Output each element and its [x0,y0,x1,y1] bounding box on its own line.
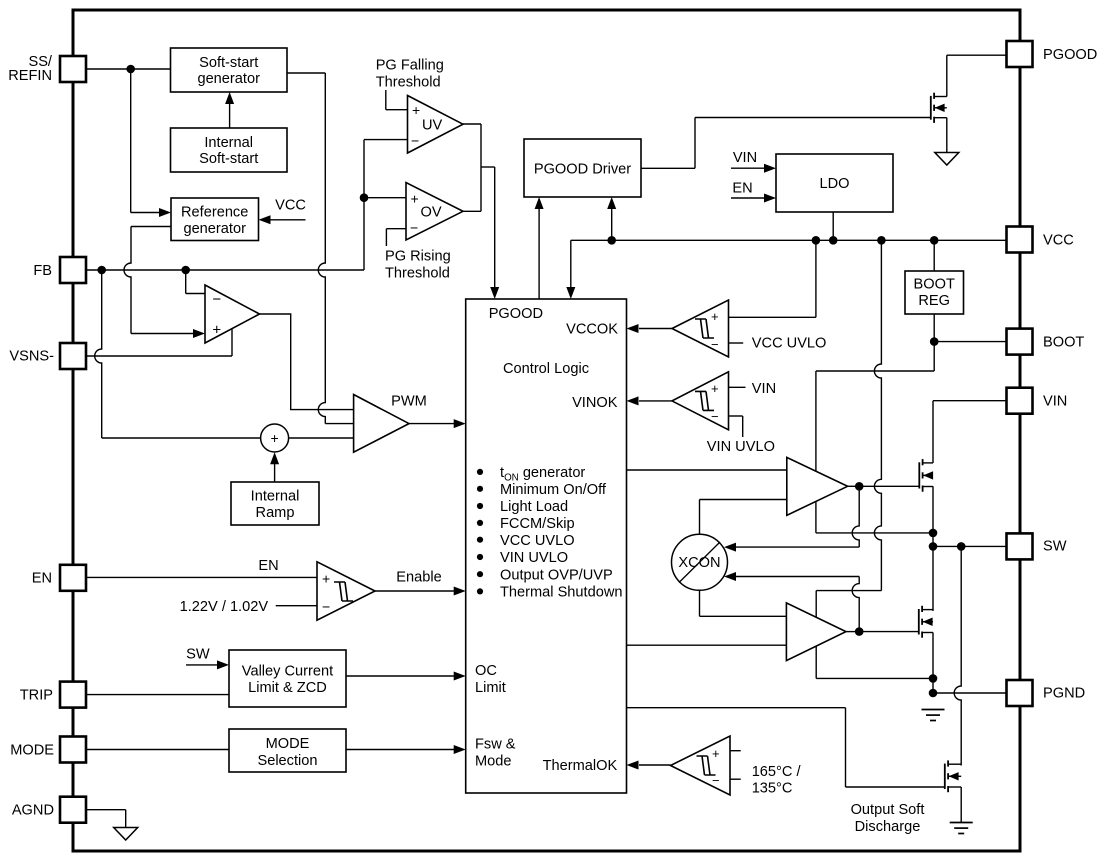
svg-text:VCC: VCC [275,198,306,214]
wire Internal Soft-start to Soft-start generator [229,103,231,128]
wire high-side driver output to gate [848,485,860,487]
svg-text:SW: SW [1043,539,1067,555]
ground AGND [114,828,138,841]
wire SW branch to Output Soft Discharge drain [954,546,961,765]
block Control Logic [466,299,627,793]
svg-text:PGOOD Driver: PGOOD Driver [534,162,631,178]
node FB junction 1 [97,266,106,275]
node BOOT junction [930,337,939,346]
comparator thermal shutdown [671,736,731,795]
wire switch node column [932,486,934,611]
svg-text:MODE: MODE [266,736,310,752]
wire TRIP pin to Valley Current Limit block [87,694,230,696]
node VCC rail to BOOT REG [930,236,939,245]
svg-text:PWM: PWM [391,394,427,410]
wire VIN UVLO - input stub [729,415,743,417]
wire thermal comparator - input stub [730,778,741,780]
svg-text:165°C /: 165°C / [752,764,802,780]
node SW junction [929,542,938,551]
svg-text:generator: generator [197,71,260,87]
svg-text:+: + [412,102,420,118]
wire Control Logic to low-side driver input [627,644,787,646]
svg-text:Ramp: Ramp [256,505,295,521]
driver high-side gate driver [787,457,848,515]
comparator VIN UVLO [672,372,729,430]
comparator EN enable [317,562,375,620]
op-amp error amplifier [205,285,260,343]
wire low-side driver output to gate [846,631,859,633]
block Valley Current Limit and ZCD [229,650,346,707]
node FB junction 2 [181,266,190,275]
wire VIN UVLO output to VINOK [639,400,672,402]
svg-text:−: − [711,337,719,352]
block MODE Selection [229,729,346,772]
svg-text:−: − [411,132,419,148]
wire SS/REFIN down to Reference generator [130,69,132,213]
svg-text:Discharge: Discharge [855,819,921,835]
svg-text:PG Falling: PG Falling [376,58,444,74]
pin SS/REFIN [60,56,86,82]
svg-text:−: − [212,291,221,308]
comparator PWM [354,395,409,453]
summing node [261,424,289,452]
svg-text:Output Soft: Output Soft [851,802,925,818]
svg-text:VIN UVLO: VIN UVLO [707,439,775,455]
wire XCON to high-side driver [699,500,701,535]
wire high-side driver negative rail to SW [815,501,817,533]
wire VCC to VCC UVLO + input [815,240,817,317]
svg-text:BOOT: BOOT [1043,335,1084,351]
node low-side driver output [855,627,864,636]
wire MODE pin to MODE Selection block [87,749,230,751]
svg-text:Internal: Internal [204,135,253,151]
wire UV/OV outputs to Control Logic PGOOD input [463,123,481,125]
wire Reference generator to error amp + input [131,226,171,228]
transistor PGOOD pull-down FET [930,96,932,120]
wire BOOT pin [934,341,1006,343]
wire VCC UVLO - input stub [729,342,744,344]
svg-text:−: − [322,599,330,615]
transistor high-side FET [918,462,920,488]
wire BOOT REG to VCC rail [933,240,935,271]
wire thermal comparator + input stub [730,750,741,752]
svg-text:EN: EN [732,181,752,197]
svg-text:VCC: VCC [1043,233,1074,249]
pin TRIP [60,682,86,708]
wire SW pin [933,545,1007,547]
wire PWM output to Control Logic [409,423,455,425]
node low-side source junction [929,674,938,683]
svg-text:Selection: Selection [257,753,317,769]
wire Control Logic to PGOOD Driver [538,209,540,299]
svg-text:Enable: Enable [396,570,441,586]
svg-text:generator: generator [183,221,246,237]
wire EN into LDO [731,197,765,199]
pin VSNS- [60,343,86,369]
wire Valley Current Limit output to OC Limit [346,675,455,677]
svg-text:TRIP: TRIP [20,688,53,704]
svg-text:REG: REG [918,293,950,309]
wire PG Falling Threshold to UV + input [385,90,387,110]
svg-text:REFIN: REFIN [8,68,52,84]
svg-text:Limit & ZCD: Limit & ZCD [248,680,327,696]
pin VCC [1007,227,1033,253]
svg-text:SW: SW [186,647,210,663]
block BOOT REG [905,271,964,314]
svg-text:MODE: MODE [10,743,54,759]
svg-text:PGOOD: PGOOD [489,306,543,322]
svg-text:BOOT: BOOT [914,277,955,293]
svg-text:XCON: XCON [678,555,720,571]
pin AGND [60,797,86,823]
svg-text:+: + [711,381,719,396]
wire VCC UVLO output to VCCOK [639,328,672,330]
wire MODE Selection output to Fsw & Mode [346,749,455,751]
wire VCC down-feed to low-side driver supply [874,240,881,590]
svg-text:Mode: Mode [475,754,512,770]
svg-text:+: + [271,430,279,446]
svg-text:1.22V / 1.02V: 1.22V / 1.02V [180,599,269,615]
wire FB to UV - input [364,139,408,141]
wire FB net [87,269,365,271]
svg-text:ThermalOK: ThermalOK [543,758,618,774]
node PGND junction [929,689,938,698]
wire FB to error amp - input [185,270,187,294]
driver low-side gate driver [786,603,846,661]
ground PGOOD pull-down [935,153,959,166]
wire low-side driver negative rail to PGND [816,677,933,679]
ground power ground [922,709,945,711]
transistor Output Soft Discharge FET [944,764,946,789]
svg-text:135°C: 135°C [752,780,793,796]
wire Output Soft Discharge source to ground [960,787,962,822]
svg-text:PGND: PGND [1043,686,1085,702]
comparator UV [408,96,464,154]
pin MODE [60,737,86,763]
wire Soft-start generator output to PWM comparator [287,72,325,74]
svg-text:UV: UV [422,118,443,134]
wire Control Logic to Output Soft Discharge gate [627,707,846,709]
wire FB up to UV/OV comparators [363,140,365,270]
wire PG Rising Threshold to OV - input [385,229,387,246]
node VCC rail down-feed [877,236,886,245]
svg-text:VIN: VIN [733,150,757,166]
node SS/REFIN junction [126,65,135,74]
node high-side driver output [855,482,864,491]
svg-text:EN: EN [32,571,52,587]
pin SW [1007,533,1033,559]
wire FB to OV + input [364,197,406,199]
wire SS/REFIN to Soft-start generator [87,68,171,70]
svg-text:VCC UVLO: VCC UVLO [752,336,827,352]
pin PGOOD [1007,41,1033,67]
transistor low-side FET [918,609,920,635]
svg-text:VCCOK: VCCOK [566,322,618,338]
svg-text:+: + [212,322,221,339]
svg-text:Control Logic: Control Logic [503,361,589,377]
wire summing node to PWM comparator [289,437,354,439]
wire 1.22V/1.02V reference to EN comparator - input [276,605,317,607]
wire Enable to Control Logic [375,590,455,592]
svg-text:VCC UVLO: VCC UVLO [500,533,575,549]
svg-text:+: + [322,570,330,586]
wire XCON to low-side driver [699,590,701,616]
pin BOOT [1007,329,1033,355]
wire AGND pin to ground [87,809,126,811]
svg-text:VIN: VIN [752,381,776,397]
svg-text:EN: EN [258,558,278,574]
block Internal Soft-start [171,128,288,172]
svg-text:Minimum On/Off: Minimum On/Off [500,482,607,498]
wire thermal comparator output to ThermalOK [639,764,671,766]
wire FB down to summing node [95,270,102,438]
block XCON cross-conduction [672,534,728,590]
svg-text:Limit: Limit [475,680,506,696]
svg-text:Soft-start: Soft-start [199,55,258,71]
node SW rail junction 1 [929,529,938,538]
wire VIN into LDO [731,167,765,169]
block Soft-start generator [171,48,288,92]
svg-text:LDO: LDO [819,176,849,192]
wire VCC to PGOOD Driver [611,209,613,240]
wire high-side gate to XCON input [852,486,859,547]
svg-text:VIN UVLO: VIN UVLO [500,550,568,566]
svg-text:Threshold: Threshold [376,75,441,91]
wire error amp output to PWM comparator [260,314,354,410]
svg-text:Threshold: Threshold [385,266,450,282]
wire VSNS- to error amp [87,355,233,357]
wire low-side FET source to power ground [932,633,934,694]
svg-text:Thermal Shutdown: Thermal Shutdown [500,585,623,601]
block Reference generator [171,198,259,241]
ground Output Soft Discharge [950,822,973,824]
svg-text:PGOOD: PGOOD [1043,47,1097,63]
svg-text:Reference: Reference [181,205,248,221]
node VCC rail to VCC UVLO [812,236,821,245]
comparator VCC UVLO [672,300,729,357]
svg-text:Internal: Internal [251,489,300,505]
wire LDO output to VCC rail [832,212,834,240]
wire PGOOD pull-down source to ground [946,118,948,153]
svg-text:Fsw &: Fsw & [475,737,516,753]
wire VIN UVLO + input stub [729,386,746,388]
wire PGOOD Driver output to PGOOD pull-down gate [641,167,695,169]
svg-text:OV: OV [421,205,442,221]
svg-text:AGND: AGND [12,803,54,819]
wire VCC rail [571,239,1007,241]
block LDO [776,154,893,212]
svg-text:+: + [712,746,720,761]
wire PGOOD pin to pull-down FET [947,54,1007,56]
wire low-side gate to XCON input [852,577,859,632]
node VCC rail to LDO [829,236,838,245]
svg-text:−: − [410,220,418,236]
wire BOOT to high-side driver supply [933,342,935,371]
svg-text:FB: FB [33,263,52,279]
svg-text:Light Load: Light Load [500,499,568,515]
wire Control Logic to high-side driver input [627,469,787,471]
pin PGND [1007,680,1033,706]
pin FB [60,257,86,283]
svg-text:Valley Current: Valley Current [242,664,333,680]
node VCC rail to PGOOD Driver [607,236,616,245]
wire VIN pin to high-side FET drain [933,400,1007,402]
svg-text:FCCM/Skip: FCCM/Skip [500,516,575,532]
text bullet list [477,469,483,475]
wire Internal Ramp to summing node [274,463,276,482]
wire SW to Valley Current Limit block [186,664,218,666]
svg-text:Soft-start: Soft-start [199,151,258,167]
wire EN pin to EN comparator [87,576,318,578]
svg-text:Output OVP/UVP: Output OVP/UVP [500,567,613,583]
svg-text:OC: OC [475,663,497,679]
pin VIN [1007,388,1033,414]
svg-text:−: − [711,409,719,424]
wire PGND pin [933,692,1007,694]
svg-text:PG Rising: PG Rising [385,249,451,265]
wire BOOT REG to BOOT pin [933,314,935,342]
node FB to OV junction [360,193,369,202]
svg-text:VINOK: VINOK [572,395,618,411]
node SW to soft discharge branch [957,542,966,551]
svg-text:+: + [711,309,719,324]
svg-text:VSNS-: VSNS- [9,349,54,365]
svg-text:+: + [411,190,419,206]
block Internal Ramp [231,482,319,525]
comparator OV [406,183,463,241]
block PGOOD Driver [524,139,641,197]
svg-text:VIN: VIN [1043,394,1067,410]
pin EN [60,565,86,591]
